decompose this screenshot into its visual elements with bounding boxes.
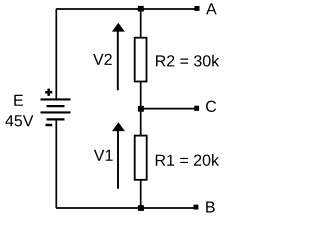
label E: [14, 95, 23, 106]
label R2 = 30k: [156, 55, 219, 67]
label C: [206, 101, 216, 112]
battery E long plate 2: [41, 111, 71, 113]
wire left vertical lower (battery - to bottom rail): [55, 119, 57, 208]
arrow V2 head: [112, 23, 125, 32]
wire left vertical upper (battery + to top rail): [55, 9, 57, 100]
label V1: [94, 150, 113, 161]
terminal node B: [193, 205, 198, 210]
wire top horizontal (node A rail): [56, 8, 197, 10]
label V2: [93, 54, 112, 65]
junction node at middle rail: [138, 106, 144, 112]
junction node at top rail: [138, 6, 144, 12]
wire middle horizontal (node C rail): [141, 108, 196, 110]
battery minus sign: [46, 124, 53, 127]
junction node at bottom rail: [138, 205, 144, 211]
terminal node A: [194, 6, 199, 11]
wire bottom horizontal (node B rail): [56, 207, 196, 209]
battery E long plate 1: [41, 98, 71, 100]
arrow V1 head: [112, 122, 125, 131]
label R1 = 20k: [156, 154, 219, 166]
wire R1 to bottom rail: [140, 180, 142, 208]
wire right branch top rail to R2: [140, 9, 142, 38]
label 45V: [5, 115, 33, 126]
label B: [206, 201, 215, 212]
battery E short plate 2: [47, 118, 65, 120]
arrow V2 shaft: [117, 30, 119, 91]
arrow V1 shaft: [117, 130, 119, 189]
label A: [206, 3, 217, 14]
battery E short plate 1: [47, 105, 65, 107]
wire node C to R1: [140, 109, 142, 136]
resistor R1 body: [135, 136, 147, 180]
battery plus sign: [45, 89, 52, 96]
wire R2 to node C: [140, 82, 142, 110]
terminal node C: [194, 106, 199, 111]
resistor R2 body: [135, 38, 147, 82]
